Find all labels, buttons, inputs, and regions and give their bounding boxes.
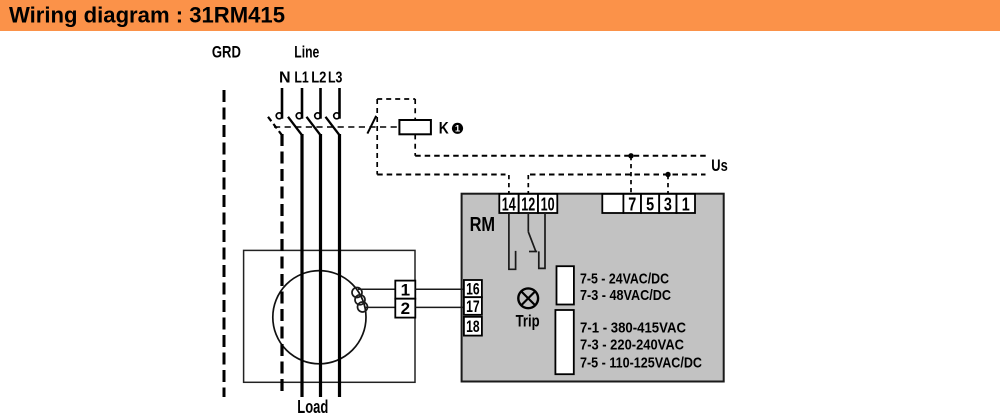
junction dot on lower rail at terminal 3 drop	[665, 172, 670, 177]
GRD dashed earth line	[223, 90, 226, 397]
svg-text:1: 1	[455, 124, 461, 135]
wire: Us upper dashed rail	[415, 155, 707, 157]
relay coil K	[399, 120, 431, 134]
dashed control box top side	[377, 98, 415, 100]
pole L3 upper lead	[338, 88, 341, 119]
terminal cell 14	[499, 194, 518, 213]
dashed control box left side	[376, 99, 378, 175]
terminal cell 12	[519, 194, 538, 213]
svg-text:16: 16	[466, 280, 480, 299]
wire: dashed lead into coil top	[414, 99, 416, 120]
pole L3 blade	[326, 117, 340, 135]
wire: lower dashed rail	[377, 174, 505, 176]
wire: dashed drop to terminal 12	[527, 175, 529, 194]
internal wire from terminal 10 with contact seat	[539, 213, 545, 268]
svg-text:7-1 - 380-415VAC: 7-1 - 380-415VAC	[580, 319, 686, 336]
pole L1 load lead	[300, 134, 303, 397]
wire: dashed lead from coil bottom	[414, 134, 416, 155]
terminal cell 7	[623, 194, 641, 213]
pole N load lead (dashed)	[280, 134, 283, 396]
svg-text:1: 1	[401, 280, 410, 299]
terminal cell 5	[641, 194, 659, 213]
svg-text:7: 7	[628, 195, 636, 215]
trip lamp symbol	[518, 288, 538, 308]
pole N fixed contact hook	[276, 113, 282, 119]
changeover contact blade	[528, 232, 536, 252]
svg-text:7-3 - 48VAC/DC: 7-3 - 48VAC/DC	[580, 287, 671, 304]
svg-text:2: 2	[401, 299, 410, 318]
pole L2 upper lead	[319, 88, 322, 119]
RM unit body	[462, 194, 724, 382]
CT primary window box	[244, 250, 415, 382]
pole L1 upper lead	[301, 88, 304, 119]
supply option bracket upper	[557, 266, 574, 304]
wire: winding to terminal box 2	[365, 306, 395, 308]
wire: box2 to terminal 17	[415, 306, 464, 308]
internal wire from terminal 14 with contact seat	[509, 213, 516, 269]
svg-text:Trip: Trip	[516, 312, 540, 331]
terminal cell 1	[677, 194, 696, 213]
CT terminal box 1	[395, 281, 415, 299]
pole N upper lead	[281, 88, 284, 119]
pole L3 fixed contact hook	[334, 113, 340, 119]
svg-text:L2: L2	[311, 69, 326, 86]
pole L3 load lead	[338, 134, 341, 397]
svg-text:RM: RM	[470, 214, 496, 236]
svg-text:L3: L3	[328, 69, 342, 86]
terminal cell blank	[602, 194, 623, 213]
svg-text:Line: Line	[294, 43, 319, 62]
terminal cell 18	[464, 317, 482, 336]
svg-text:3: 3	[664, 195, 672, 215]
terminal cell 17	[464, 297, 482, 315]
svg-text:7-3 - 220-240VAC: 7-3 - 220-240VAC	[580, 337, 684, 354]
svg-text:Wiring diagram : 31RM415: Wiring diagram : 31RM415	[9, 3, 285, 28]
svg-text:K: K	[439, 118, 450, 137]
svg-text:18: 18	[466, 317, 480, 336]
pole L1 fixed contact hook	[296, 113, 302, 119]
terminal cell 3	[659, 194, 676, 213]
svg-text:Us: Us	[711, 157, 728, 175]
svg-text:1: 1	[682, 195, 690, 215]
svg-text:14: 14	[502, 195, 516, 215]
secondary winding loop 2	[355, 295, 365, 305]
pole N blade (dashed)	[268, 117, 282, 135]
svg-text:N: N	[279, 69, 291, 86]
svg-text:7-5 - 110-125VAC/DC: 7-5 - 110-125VAC/DC	[580, 355, 702, 372]
wire: dashed drop to terminal 3	[667, 175, 669, 194]
supply option bracket lower	[555, 310, 573, 374]
junction dot on Us rail at terminal 7 drop	[628, 153, 633, 158]
svg-text:L1: L1	[294, 69, 308, 86]
svg-text:GRD: GRD	[212, 43, 241, 62]
pole L2 load lead	[319, 134, 322, 397]
pole L2 blade	[307, 117, 321, 135]
terminal cell 16	[464, 280, 482, 297]
svg-text:Load: Load	[297, 396, 328, 417]
svg-text:12: 12	[521, 195, 535, 215]
CT terminal box 2	[395, 299, 415, 318]
wire: winding to terminal box 1	[358, 288, 395, 290]
svg-text:10: 10	[541, 195, 555, 215]
wire: dashed drop to terminal 14	[508, 175, 510, 194]
svg-text:17: 17	[466, 297, 480, 316]
svg-text:5: 5	[646, 195, 654, 215]
terminal cell 10	[538, 194, 557, 213]
contact K blade	[367, 116, 376, 134]
pole L1 blade	[288, 117, 302, 135]
secondary winding loop 3	[358, 302, 368, 312]
wire: dashed drop to terminal 7	[630, 156, 632, 194]
secondary winding loop 1	[352, 288, 362, 298]
svg-text:7-5 - 24VAC/DC: 7-5 - 24VAC/DC	[580, 270, 669, 287]
note marker 1 (black disc)	[452, 123, 463, 134]
contact blade tip bar	[529, 251, 537, 253]
pole L2 fixed contact hook	[315, 113, 321, 119]
internal wire from terminal 12 (common)	[527, 213, 529, 232]
title bar	[0, 0, 1000, 31]
wire: box1 to terminal 16	[415, 288, 464, 290]
wire: mechanical linkage dashed line	[274, 126, 399, 128]
toroid core circle	[273, 271, 366, 364]
